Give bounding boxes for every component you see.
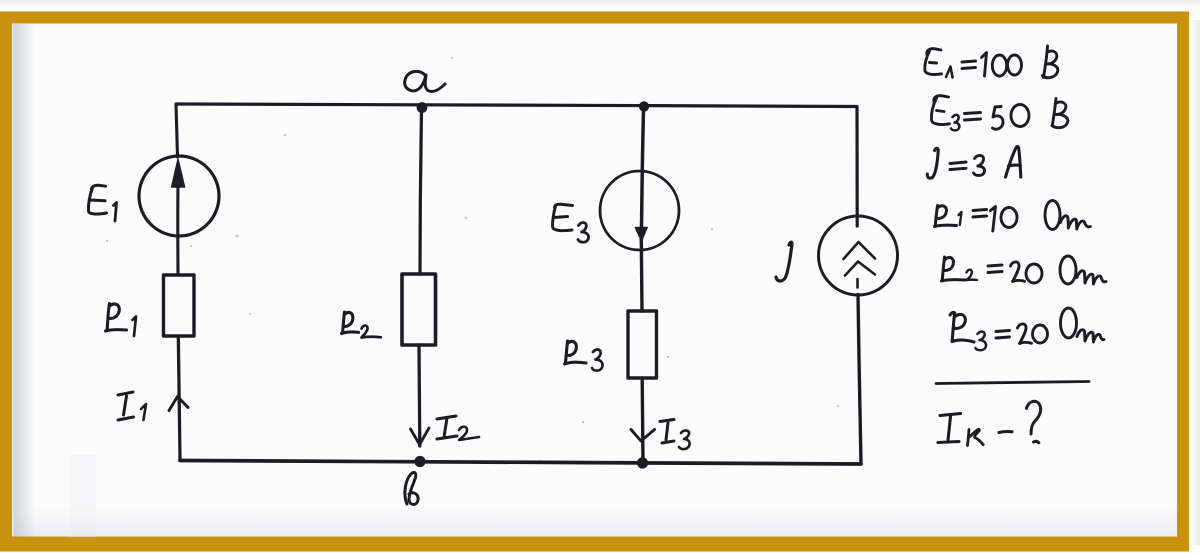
label R1	[106, 304, 127, 332]
value E1 = 100 V	[925, 46, 1058, 78]
J chevron 1	[844, 242, 876, 259]
node a dot	[417, 102, 428, 113]
scan shadows (decorative)	[0, 0, 1200, 9]
wire: branch 2 lower	[417, 345, 421, 446]
E1 arrow shaft	[176, 184, 179, 275]
wire: left branch upper segment	[176, 104, 178, 157]
value R2 = 20 Om	[942, 256, 1107, 284]
wire: branch 2 upper	[420, 108, 422, 274]
wire: right branch lower	[858, 295, 861, 465]
current source J circle	[819, 216, 898, 295]
wire: bottom rail node b	[180, 461, 861, 465]
label E1	[88, 185, 106, 214]
wire: branch 3 middle	[640, 240, 644, 311]
label I3	[660, 420, 674, 444]
resistor R3	[628, 311, 657, 378]
wire: branch 3 lower	[641, 378, 645, 462]
E3 arrow head	[635, 228, 647, 242]
voltage source E1	[139, 156, 219, 236]
wire: top rail node a	[176, 104, 857, 107]
paper speckles (decorative)	[106, 57, 839, 462]
value E3 = 50 V	[931, 96, 1067, 131]
resistor R2	[402, 274, 436, 345]
label J	[776, 242, 792, 281]
node b dot (branch 2)	[414, 456, 425, 467]
label I1	[118, 392, 134, 420]
current arrow I2	[411, 428, 430, 445]
label R2	[342, 312, 359, 334]
label E3	[553, 204, 573, 230]
value R3 = 20 Om	[950, 308, 1104, 350]
node dot top (branch 3)	[639, 101, 649, 111]
wire: right branch upper	[855, 107, 858, 226]
wire: branch 3 upper	[641, 107, 643, 240]
voltage source E3	[600, 171, 679, 250]
E1 arrow head	[172, 159, 185, 187]
value R1 = 10 Om	[935, 201, 1091, 232]
scanner streak (decorative)	[70, 455, 96, 537]
node label a	[405, 71, 445, 91]
J bottom stub	[856, 279, 859, 288]
J chevron 2	[845, 262, 875, 276]
question Ik	[938, 401, 1041, 445]
current arrow I1	[169, 397, 188, 411]
separator line	[936, 382, 1089, 384]
node b dot (branch 3)	[637, 457, 648, 468]
label R3	[565, 341, 587, 364]
wire: left branch lower segment	[178, 336, 180, 461]
label I2	[437, 416, 457, 439]
current arrow I3	[631, 430, 655, 442]
node label b	[405, 472, 418, 504]
value J = 3 A	[927, 147, 1021, 179]
resistor R1	[164, 275, 195, 336]
